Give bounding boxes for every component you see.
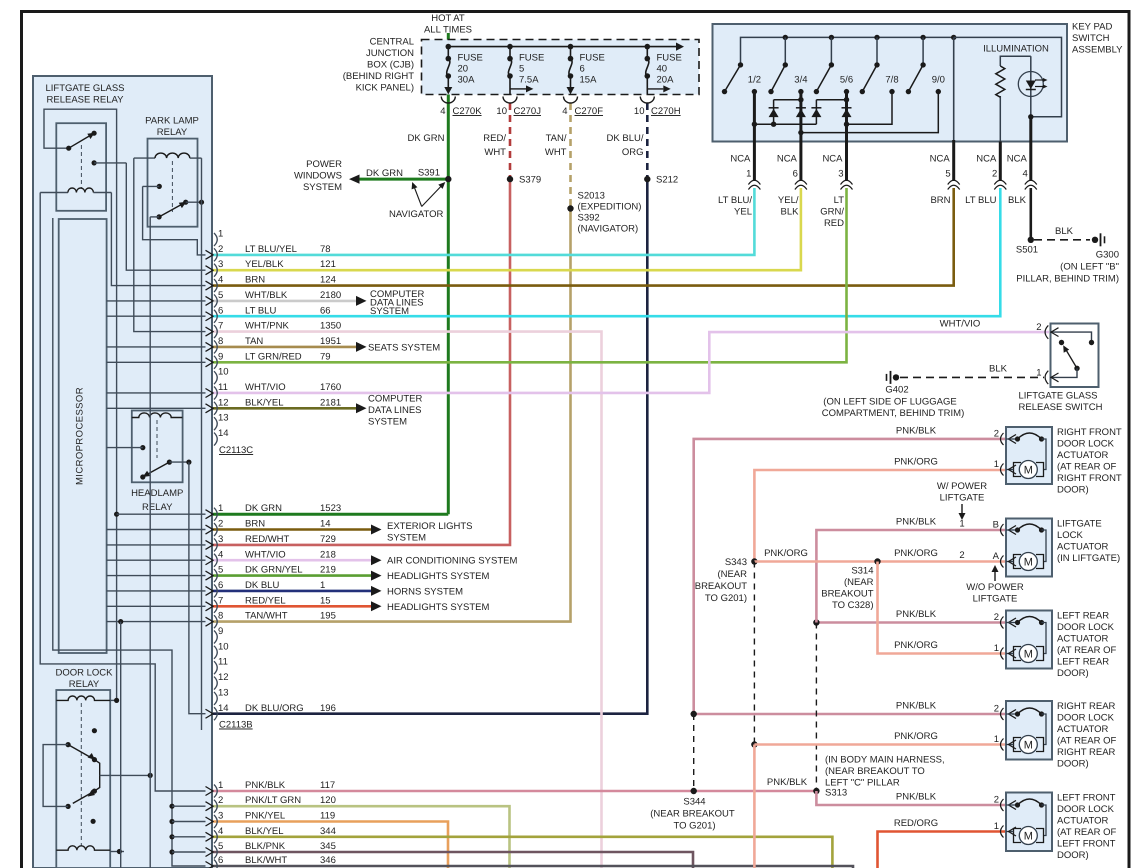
computer data lines system arrow (row12) xyxy=(356,394,423,428)
microprocessor box xyxy=(59,219,107,653)
svg-text:DOOR): DOOR) xyxy=(1057,759,1089,770)
horns system arrow xyxy=(371,586,463,598)
splice S314 xyxy=(821,558,880,611)
svg-text:1: 1 xyxy=(994,459,999,470)
keypad wire label YEL/BLK xyxy=(778,195,799,218)
keypad connector pin5 NCA xyxy=(930,154,960,190)
svg-text:PNK/BLK: PNK/BLK xyxy=(896,517,937,528)
ground G300 xyxy=(1016,233,1119,284)
svg-text:S2013: S2013 xyxy=(578,191,605,202)
svg-text:BLK/WHT: BLK/WHT xyxy=(245,855,287,866)
svg-text:13: 13 xyxy=(218,413,229,424)
wire keypad pin6 output xyxy=(799,92,802,181)
svg-text:W/O POWER: W/O POWER xyxy=(966,582,1024,593)
svg-text:DOOR): DOOR) xyxy=(1057,668,1089,679)
svg-text:(AT REAR OF: (AT REAR OF xyxy=(1057,736,1116,747)
wire illumination top jumper xyxy=(1000,56,1031,141)
wire WHT/BLK 2180 computer data lines xyxy=(213,300,356,303)
svg-text:MICROPROCESSOR: MICROPROCESSOR xyxy=(75,387,86,485)
svg-text:S344: S344 xyxy=(683,797,705,808)
svg-text:SWITCH: SWITCH xyxy=(1072,33,1110,44)
svg-text:(NEAR: (NEAR xyxy=(717,569,747,580)
wire DK BLU 1 horns xyxy=(213,590,371,593)
svg-text:(IN LIFTGATE): (IN LIFTGATE) xyxy=(1057,553,1120,564)
svg-text:2: 2 xyxy=(994,612,999,623)
svg-text:11: 11 xyxy=(218,657,228,668)
relay K4 upper blade xyxy=(66,742,98,762)
svg-text:SYSTEM: SYSTEM xyxy=(387,533,426,544)
wire gray lead C2113B pin3 xyxy=(107,544,206,546)
svg-text:RED/YEL: RED/YEL xyxy=(245,595,286,606)
svg-text:729: 729 xyxy=(320,534,336,545)
svg-text:DK GRN: DK GRN xyxy=(408,133,445,144)
svg-text:RIGHT REAR: RIGHT REAR xyxy=(1057,747,1116,758)
liftgate lock actuator M2 xyxy=(993,519,1121,577)
svg-text:DOOR LOCK: DOOR LOCK xyxy=(55,668,113,679)
svg-text:1: 1 xyxy=(320,580,325,591)
headlights system arrow 1 xyxy=(371,571,489,582)
wire gray lead C2113B pin4 xyxy=(107,559,206,561)
svg-text:DK BLU/ORG: DK BLU/ORG xyxy=(245,703,304,714)
svg-text:2: 2 xyxy=(994,429,999,440)
svg-text:344: 344 xyxy=(320,826,336,837)
svg-text:12: 12 xyxy=(218,397,229,408)
svg-text:RED/ORG: RED/ORG xyxy=(894,818,938,829)
wire BLK/PNK 345 xyxy=(213,852,693,868)
svg-text:5: 5 xyxy=(218,565,223,576)
CJB label xyxy=(343,37,414,94)
svg-text:79: 79 xyxy=(320,351,331,362)
svg-text:RELEASE RELAY: RELEASE RELAY xyxy=(47,95,125,106)
svg-text:LEFT FRONT: LEFT FRONT xyxy=(1057,839,1116,850)
LED lamp symbol xyxy=(1018,72,1047,97)
headlights system arrow 2 xyxy=(371,601,489,613)
svg-text:PNK/ORG: PNK/ORG xyxy=(764,548,808,559)
svg-text:7: 7 xyxy=(218,595,223,606)
wire keypad pin5 bus output xyxy=(953,37,955,141)
keypad switch 3/4 xyxy=(768,37,807,94)
svg-text:124: 124 xyxy=(320,275,336,286)
svg-text:5: 5 xyxy=(218,290,223,301)
svg-text:BREAKOUT: BREAKOUT xyxy=(695,581,747,592)
wire WHT/VIO 218 air conditioning xyxy=(213,559,371,562)
svg-text:S501: S501 xyxy=(1016,245,1038,256)
svg-text:COMPARTMENT, BEHIND TRIM): COMPARTMENT, BEHIND TRIM) xyxy=(822,408,965,419)
svg-text:121: 121 xyxy=(320,259,336,270)
svg-text:TAN/: TAN/ xyxy=(546,133,567,144)
relay K4 lower blade xyxy=(66,789,98,810)
wire gray lead C2113C pin4 from relay K1 coil xyxy=(111,193,205,286)
relay K2 coil xyxy=(134,153,202,158)
svg-text:1350: 1350 xyxy=(320,321,341,332)
park lamp relay label xyxy=(145,116,199,139)
svg-text:PNK/BLK: PNK/BLK xyxy=(896,426,937,437)
seats system arrow (row8) xyxy=(356,342,440,354)
wire gray trunk relay K1 coil left to bottom connector pin1 xyxy=(40,193,205,792)
svg-text:RELAY: RELAY xyxy=(69,679,100,690)
svg-text:TAN/WHT: TAN/WHT xyxy=(245,611,288,622)
keypad connector pin3 NCA xyxy=(822,154,852,190)
wire illumination loop to bus xyxy=(954,37,1062,119)
svg-text:12: 12 xyxy=(218,672,229,683)
svg-text:A: A xyxy=(993,551,1000,562)
svg-text:2180: 2180 xyxy=(320,290,341,301)
svg-text:AIR CONDITIONING SYSTEM: AIR CONDITIONING SYSTEM xyxy=(387,556,517,567)
wire RED/WHT fuse5 dashed segment xyxy=(509,103,512,179)
wire gray lead C2113C pin11 xyxy=(107,392,206,394)
svg-text:(AT REAR OF: (AT REAR OF xyxy=(1057,827,1116,838)
svg-text:10: 10 xyxy=(496,106,507,117)
connector C270F arc and label xyxy=(562,97,603,118)
diode D4 xyxy=(842,108,852,117)
svg-text:3: 3 xyxy=(838,169,843,180)
connector C2113C xyxy=(206,229,342,457)
svg-text:EXTERIOR LIGHTS: EXTERIOR LIGHTS xyxy=(387,521,473,532)
svg-text:WHT/PNK: WHT/PNK xyxy=(245,321,289,332)
relay K4 upper fixed contact xyxy=(92,728,97,733)
relay K1 output contact xyxy=(92,160,127,165)
keypad wire label LT GRN/RED xyxy=(820,195,844,229)
relay K1 switch blade xyxy=(66,131,97,151)
svg-text:S392: S392 xyxy=(578,213,600,224)
svg-text:RED: RED xyxy=(824,218,844,229)
svg-text:SEATS SYSTEM: SEATS SYSTEM xyxy=(368,343,440,354)
svg-text:PNK/ORG: PNK/ORG xyxy=(894,640,938,651)
hot at all times label xyxy=(424,13,472,36)
wire gray lead C2113B pin7 xyxy=(107,605,206,607)
svg-text:196: 196 xyxy=(320,703,336,714)
svg-text:FUSE: FUSE xyxy=(458,53,483,64)
svg-text:G402: G402 xyxy=(885,385,908,396)
svg-text:NAVIGATOR: NAVIGATOR xyxy=(389,209,444,220)
svg-text:DOOR LOCK: DOOR LOCK xyxy=(1057,804,1115,815)
wire gray lead C2113B pin14 from relay K3 xyxy=(189,462,206,714)
relay K4 pole link xyxy=(94,760,99,792)
wire keypad bottom jumper pin1 net xyxy=(754,123,816,125)
svg-text:1523: 1523 xyxy=(320,503,341,514)
svg-text:DOOR LOCK: DOOR LOCK xyxy=(1057,439,1115,450)
svg-text:LEFT REAR: LEFT REAR xyxy=(1057,657,1109,668)
w/ power liftgate note xyxy=(937,481,987,520)
svg-text:117: 117 xyxy=(320,780,335,791)
svg-text:PILLAR, BEHIND TRIM): PILLAR, BEHIND TRIM) xyxy=(1016,274,1119,285)
wire PNK/ORG to right front actuator pin1 xyxy=(754,470,1006,562)
wire keypad bottom jumper pin6 net xyxy=(801,92,938,133)
wire WHT/VIO 1760 to liftgate glass release switch xyxy=(213,332,1049,393)
svg-text:LT BLU/YEL: LT BLU/YEL xyxy=(245,244,297,255)
svg-text:PNK/YEL: PNK/YEL xyxy=(245,811,285,822)
wire gray lead C2113C pin3 from relay K1 contact xyxy=(126,163,205,270)
svg-text:FUSE: FUSE xyxy=(657,53,682,64)
svg-text:10: 10 xyxy=(634,106,645,117)
svg-text:PNK/LT GRN: PNK/LT GRN xyxy=(245,795,301,806)
svg-text:BRN: BRN xyxy=(245,519,265,530)
svg-text:1: 1 xyxy=(746,169,751,180)
svg-text:TO G201): TO G201) xyxy=(673,821,715,832)
keypad switch 1/2 xyxy=(722,62,761,94)
svg-text:3: 3 xyxy=(218,811,223,822)
wire gray bottom connector pin4 stub xyxy=(169,834,205,839)
wire color label RED/WHT xyxy=(483,133,506,158)
svg-text:7: 7 xyxy=(218,321,223,332)
relay K3 switch blade xyxy=(140,460,191,480)
svg-text:RIGHT FRONT: RIGHT FRONT xyxy=(1057,473,1122,484)
svg-text:8: 8 xyxy=(218,336,223,347)
right front door lock actuator M1 xyxy=(994,427,1122,496)
svg-text:2: 2 xyxy=(992,169,997,180)
wire DK BLU/ORG 196 solid segment xyxy=(213,179,647,714)
liftgate glass release switch label xyxy=(1019,391,1103,414)
keypad junction dots xyxy=(752,97,850,135)
fuse 20 30A xyxy=(444,47,483,95)
svg-text:DK GRN: DK GRN xyxy=(366,168,403,179)
relay K2 switch blade xyxy=(150,200,204,220)
svg-text:LT: LT xyxy=(834,195,845,206)
svg-text:W/ POWER: W/ POWER xyxy=(937,481,987,492)
svg-text:PNK/BLK: PNK/BLK xyxy=(896,792,937,803)
svg-text:1/2: 1/2 xyxy=(748,75,761,86)
wire gray lead C2113C pin2 S-bend from relay K2 xyxy=(143,186,206,255)
svg-text:NCA: NCA xyxy=(1007,154,1028,165)
svg-text:PNK/BLK: PNK/BLK xyxy=(245,780,286,791)
svg-text:LT BLU: LT BLU xyxy=(245,305,276,316)
wire PNK/ORG to right rear actuator pin1 xyxy=(754,743,1006,746)
svg-text:NCA: NCA xyxy=(930,154,951,165)
svg-text:WHT/VIO: WHT/VIO xyxy=(940,319,981,330)
svg-text:POWER: POWER xyxy=(306,159,342,170)
wire gray bottom connector pin2 stub xyxy=(169,804,205,809)
svg-text:BLK/PNK: BLK/PNK xyxy=(245,841,286,852)
wire RED/YEL 15 headlights xyxy=(213,605,371,608)
resistor R1 illumination xyxy=(996,66,1005,97)
wire color label TAN/WHT xyxy=(545,133,567,158)
relay K4 lower coil xyxy=(56,846,124,854)
svg-text:M: M xyxy=(1024,465,1033,477)
svg-text:LIFTGATE: LIFTGATE xyxy=(940,493,985,504)
svg-text:4: 4 xyxy=(562,106,567,117)
svg-text:LEFT REAR: LEFT REAR xyxy=(1057,611,1109,622)
svg-text:FUSE: FUSE xyxy=(580,53,605,64)
relay K2 fixed contact xyxy=(143,184,162,189)
svg-text:(IN BODY MAIN HARNESS,: (IN BODY MAIN HARNESS, xyxy=(825,755,945,766)
svg-text:2: 2 xyxy=(218,244,223,255)
wire gray bottom connector pin3 stub xyxy=(169,819,205,824)
left rear door lock actuator M3 xyxy=(994,611,1117,680)
svg-text:6: 6 xyxy=(218,855,223,866)
svg-text:LT BLU/: LT BLU/ xyxy=(718,195,752,206)
svg-text:KEY PAD: KEY PAD xyxy=(1072,22,1112,33)
svg-text:5: 5 xyxy=(218,841,223,852)
svg-text:S391: S391 xyxy=(418,168,440,179)
svg-text:10: 10 xyxy=(218,641,229,652)
svg-text:NCA: NCA xyxy=(822,154,843,165)
wire PNK/LT GRN 120 xyxy=(213,806,510,868)
svg-text:30A: 30A xyxy=(458,75,476,86)
keypad connector pin6 NCA xyxy=(777,154,807,190)
svg-text:KICK PANEL): KICK PANEL) xyxy=(356,83,414,94)
svg-text:15A: 15A xyxy=(580,75,598,86)
svg-text:5: 5 xyxy=(945,169,950,180)
svg-text:1: 1 xyxy=(218,229,223,240)
svg-text:RED/: RED/ xyxy=(483,133,506,144)
svg-text:WHT/BLK: WHT/BLK xyxy=(245,290,288,301)
svg-text:1760: 1760 xyxy=(320,382,341,393)
svg-text:M: M xyxy=(1024,831,1033,843)
wire PNK/ORG S343 to liftgate lock actuator pinA xyxy=(754,560,1006,563)
wire PNK/ORG S314 to left rear actuator pin1 xyxy=(878,562,1007,654)
svg-text:PNK/BLK: PNK/BLK xyxy=(767,777,808,788)
svg-text:LEFT FRONT: LEFT FRONT xyxy=(1057,793,1116,804)
wire gray lead C2113B pin5 xyxy=(107,575,206,577)
svg-text:YEL/BLK: YEL/BLK xyxy=(245,259,284,270)
air conditioning system arrow xyxy=(371,555,517,566)
svg-text:2181: 2181 xyxy=(320,397,341,408)
splice S344 xyxy=(650,788,735,832)
svg-text:1: 1 xyxy=(959,519,964,530)
svg-text:5: 5 xyxy=(519,64,524,75)
svg-text:4: 4 xyxy=(218,549,223,560)
svg-text:LT BLU: LT BLU xyxy=(965,195,996,206)
svg-text:BREAKOUT: BREAKOUT xyxy=(821,589,873,600)
splice S212 xyxy=(644,175,678,186)
relay K2 park lamp relay body xyxy=(148,139,198,227)
connector bottom C2113A xyxy=(206,780,336,868)
wire LT GRN/RED 79 keypad pin3 xyxy=(213,188,847,362)
svg-text:DOOR): DOOR) xyxy=(1057,850,1089,861)
svg-text:C270K: C270K xyxy=(453,106,483,117)
wire DK BLU/ORG fuse40 dashed segment xyxy=(646,103,649,179)
computer data lines system arrow (row5) xyxy=(356,289,425,317)
wire keypad pin3 output xyxy=(845,92,848,181)
fuse 6 15A xyxy=(567,47,605,95)
svg-text:4: 4 xyxy=(1023,169,1028,180)
wire keypad pin4 stub xyxy=(1029,117,1032,181)
GEM module assembly box xyxy=(33,76,212,868)
svg-text:BLK/YEL: BLK/YEL xyxy=(245,397,284,408)
keypad connector pin1 NCA xyxy=(730,154,760,190)
svg-text:219: 219 xyxy=(320,565,336,576)
relay K4 door lock relay body xyxy=(56,690,110,868)
wire WHT/PNK 1350 xyxy=(213,332,602,868)
svg-text:7/8: 7/8 xyxy=(885,75,898,86)
svg-text:LIFTGATE: LIFTGATE xyxy=(1057,519,1102,530)
svg-text:ASSEMBLY: ASSEMBLY xyxy=(1072,45,1123,56)
svg-text:TO G201): TO G201) xyxy=(705,593,747,604)
junction dot PNK/ORG right rear branch xyxy=(751,741,757,747)
svg-text:TAN: TAN xyxy=(245,336,263,347)
svg-text:C270H: C270H xyxy=(651,106,681,117)
wire gray door lock relay blade links xyxy=(43,745,68,807)
svg-text:RELEASE SWITCH: RELEASE SWITCH xyxy=(1019,402,1103,413)
wire keypad internal bus xyxy=(741,35,957,65)
svg-text:BLK: BLK xyxy=(781,207,800,218)
wire label PNK/BLK liftgate xyxy=(896,517,965,530)
svg-text:HEADLIGHTS SYSTEM: HEADLIGHTS SYSTEM xyxy=(387,602,489,613)
wire gray lead C2113B pin6 xyxy=(107,590,206,592)
wire CJB internal bus xyxy=(446,43,685,51)
diode D3 xyxy=(811,108,821,117)
svg-text:BLK: BLK xyxy=(1055,226,1074,237)
svg-text:GRN/: GRN/ xyxy=(820,207,844,218)
svg-text:BRN: BRN xyxy=(930,195,950,206)
svg-text:(NAVIGATOR): (NAVIGATOR) xyxy=(578,224,639,235)
key pad switch assembly box xyxy=(713,24,1068,142)
svg-text:5/6: 5/6 xyxy=(840,75,853,86)
svg-text:ILLUMINATION: ILLUMINATION xyxy=(983,44,1049,55)
keypad switch 5/6 xyxy=(814,37,853,94)
svg-text:218: 218 xyxy=(320,549,336,560)
wire gray lead C2113C pin6 xyxy=(107,315,206,317)
svg-text:DOOR LOCK: DOOR LOCK xyxy=(1057,713,1115,724)
wire LED branch vertical xyxy=(1030,56,1032,141)
relay K4 armature dashed link xyxy=(80,703,82,846)
svg-text:NCA: NCA xyxy=(777,154,798,165)
svg-text:HEADLIGHTS SYSTEM: HEADLIGHTS SYSTEM xyxy=(387,571,489,582)
svg-text:YEL/: YEL/ xyxy=(778,195,799,206)
diode D2 xyxy=(796,108,806,117)
splice S2013 S392 xyxy=(567,191,641,235)
wire BLK/YEL 344 xyxy=(213,837,832,868)
svg-text:BOX (CJB): BOX (CJB) xyxy=(367,60,414,71)
svg-text:120: 120 xyxy=(320,795,336,806)
keypad connector pin4 NCA xyxy=(1007,154,1037,190)
svg-text:20: 20 xyxy=(458,64,469,75)
wire gray lead C2113C pin5 xyxy=(107,300,206,302)
power windows system arrow xyxy=(294,159,360,193)
svg-text:DK GRN: DK GRN xyxy=(245,503,282,514)
connector C270H arc and label xyxy=(634,97,681,118)
svg-text:(AT REAR OF: (AT REAR OF xyxy=(1057,462,1116,473)
svg-text:B: B xyxy=(993,520,999,531)
keypad wire label LT BLU/YEL xyxy=(718,195,752,218)
wire keypad pin1 output xyxy=(753,92,756,181)
svg-text:1: 1 xyxy=(994,643,999,654)
svg-text:LOCK: LOCK xyxy=(1057,530,1084,541)
relay K3 coil xyxy=(132,413,183,418)
svg-text:9: 9 xyxy=(218,351,223,362)
wire BLK/YEL 2181 computer data lines xyxy=(213,407,356,410)
svg-text:4: 4 xyxy=(218,275,223,286)
svg-text:(NEAR BREAKOUT: (NEAR BREAKOUT xyxy=(650,809,735,820)
svg-text:YEL: YEL xyxy=(734,207,752,218)
svg-text:9/0: 9/0 xyxy=(932,75,945,86)
wire keypad diode jumper top1 xyxy=(774,99,801,101)
svg-text:ACTUATOR: ACTUATOR xyxy=(1057,542,1109,553)
wire YEL/BLK 121 keypad pin6 xyxy=(213,188,801,270)
svg-text:1951: 1951 xyxy=(320,336,341,347)
svg-text:14: 14 xyxy=(320,519,331,530)
svg-text:6: 6 xyxy=(580,64,585,75)
wire gray trunk near connector face xyxy=(201,158,203,730)
svg-text:10: 10 xyxy=(218,367,229,378)
wire LT BLU 66 keypad pin2 xyxy=(213,188,1000,316)
svg-text:WHT: WHT xyxy=(484,147,506,158)
svg-text:S313: S313 xyxy=(825,788,847,799)
svg-text:DK GRN/YEL: DK GRN/YEL xyxy=(245,565,303,576)
svg-text:119: 119 xyxy=(320,811,335,822)
svg-text:C270F: C270F xyxy=(575,106,604,117)
splice S343 xyxy=(695,557,758,604)
svg-text:1: 1 xyxy=(218,780,223,791)
svg-text:4: 4 xyxy=(218,826,223,837)
svg-text:3/4: 3/4 xyxy=(794,75,807,86)
svg-text:M: M xyxy=(1024,740,1033,752)
svg-text:LIFTGATE GLASS: LIFTGATE GLASS xyxy=(45,83,124,94)
splice S391 xyxy=(418,168,452,183)
wire PNK/BLK 117 to S344 S313 xyxy=(213,790,816,793)
svg-text:S314: S314 xyxy=(851,566,873,577)
svg-text:8: 8 xyxy=(218,611,223,622)
